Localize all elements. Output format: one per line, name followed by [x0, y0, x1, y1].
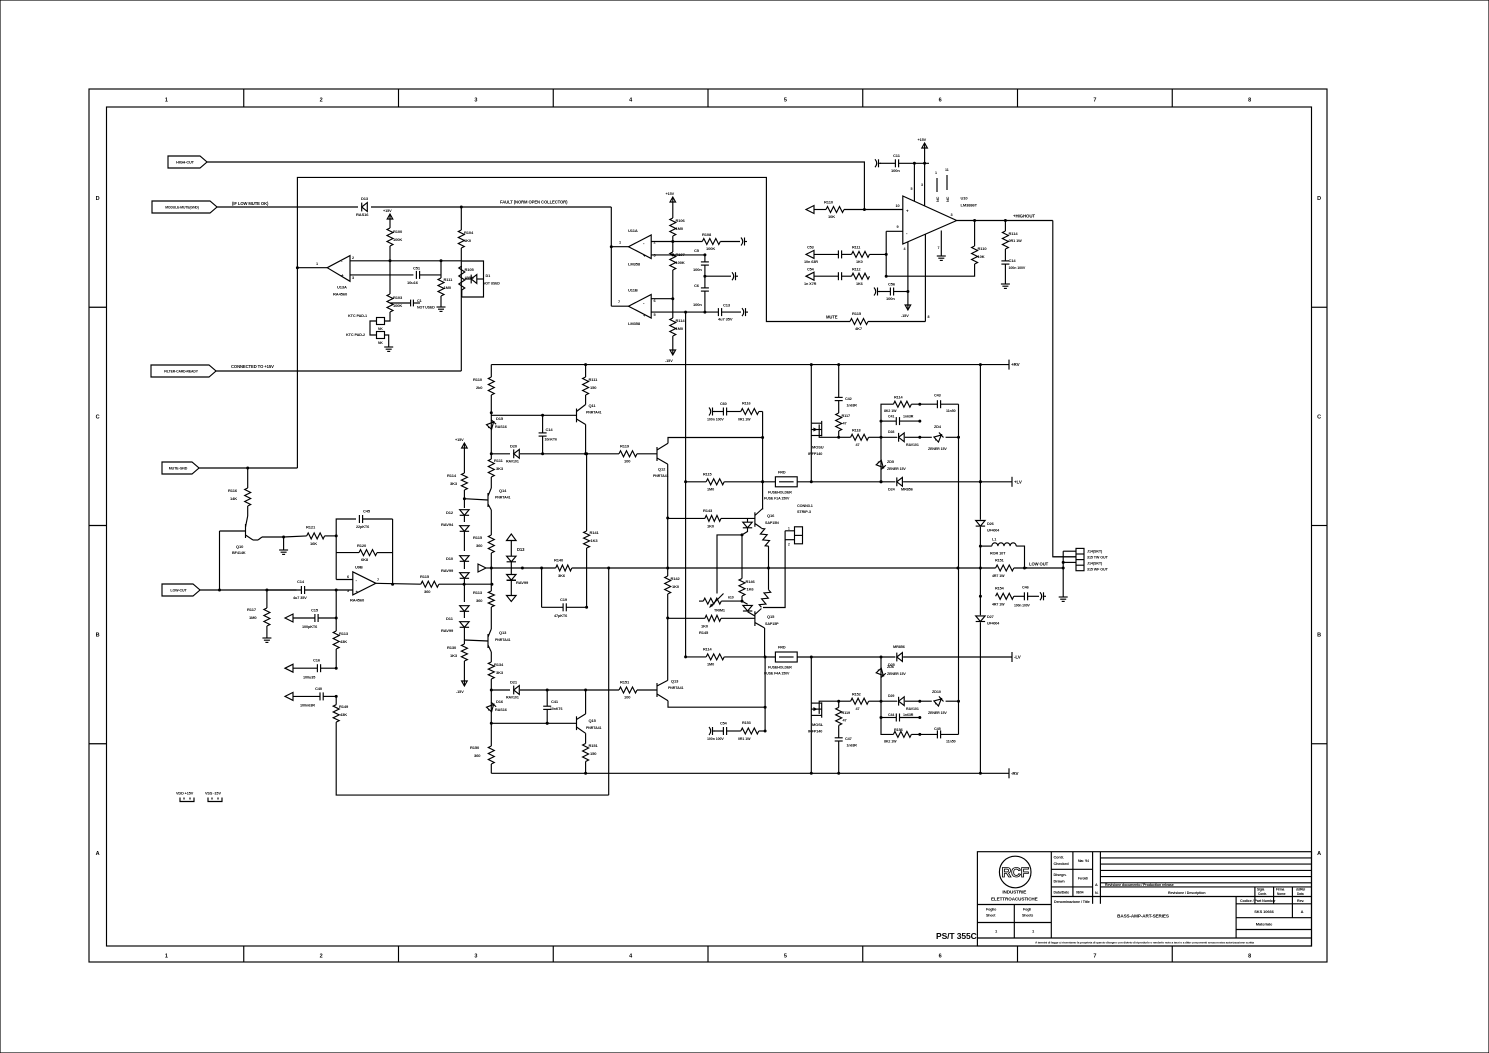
power -15V U10 — [907, 292, 909, 304]
svg-text:100n: 100n — [693, 267, 702, 272]
svg-text:D27: D27 — [987, 615, 994, 619]
resistor R142 1K0 — [665, 576, 671, 594]
svg-text:FUSEHOLDER: FUSEHOLDER — [768, 666, 792, 670]
diode D23 — [742, 601, 748, 604]
svg-text:100n 100V: 100n 100V — [707, 418, 724, 422]
power +15V U13A — [389, 214, 391, 221]
svg-text:ZENER 15V: ZENER 15V — [928, 711, 947, 715]
svg-text:1M0: 1M0 — [444, 285, 452, 290]
svg-text:R106: R106 — [676, 218, 686, 223]
svg-text:R130: R130 — [447, 645, 457, 650]
svg-text:Rev.: Rev. — [1297, 899, 1305, 903]
zobel C60 R116 — [709, 408, 711, 416]
resistor R151o 4R7 — [996, 565, 1014, 571]
svg-text:C54: C54 — [807, 268, 815, 272]
svg-text:100n 100V: 100n 100V — [1009, 266, 1026, 270]
svg-text:4: 4 — [629, 98, 633, 104]
svg-text:C54: C54 — [720, 722, 728, 726]
wire Q11 base left — [491, 414, 576, 416]
diode D27 UF4004 — [976, 616, 985, 622]
svg-text:10: 10 — [896, 204, 900, 208]
svg-text:11n50: 11n50 — [946, 409, 956, 413]
svg-text:C14: C14 — [297, 579, 305, 584]
svg-text:L1: L1 — [992, 538, 996, 542]
svg-text:R149: R149 — [339, 704, 349, 709]
svg-text:R110: R110 — [473, 377, 483, 382]
diode D15 RAS16 — [490, 413, 492, 454]
svg-text:R111: R111 — [494, 458, 504, 463]
wire output vertical top — [979, 365, 981, 520]
svg-text:100: 100 — [624, 695, 631, 700]
wire summing vertical — [335, 590, 337, 631]
capacitor C53 10n — [837, 250, 839, 258]
op-amp U10 LM3886 — [903, 196, 957, 244]
svg-text:RAS16: RAS16 — [356, 212, 369, 217]
svg-text:Drawn: Drawn — [1054, 879, 1066, 883]
svg-text:UF4004: UF4004 — [987, 529, 999, 533]
svg-text:ELETTROACUSTICHE: ELETTROACUSTICHE — [991, 897, 1038, 902]
svg-text:TRIM1: TRIM1 — [714, 609, 725, 613]
wire U10 pin4 to C56 — [907, 242, 909, 292]
op-amp U11A — [629, 235, 652, 259]
svg-text:7: 7 — [1093, 954, 1096, 960]
svg-text:U11A: U11A — [628, 228, 638, 233]
capacitor C16 100u — [285, 664, 293, 672]
wire Q15L base line — [491, 722, 576, 724]
svg-text:R110: R110 — [824, 200, 834, 205]
wire U10 minus — [886, 230, 903, 232]
svg-text:1K0: 1K0 — [707, 524, 715, 529]
svg-text:2k0: 2k0 — [476, 385, 483, 390]
svg-text:(IF LOW MUTE OK): (IF LOW MUTE OK) — [232, 201, 269, 206]
svg-text:R151: R151 — [995, 559, 1004, 563]
svg-text:A: A — [1317, 851, 1321, 857]
svg-text:Disegn.: Disegn. — [1054, 873, 1067, 877]
resistor R108 100K — [702, 239, 720, 245]
wire HIGH-CUT to U10 input — [207, 162, 864, 210]
resistor R130 1K3 — [461, 644, 467, 661]
diode D28 RAV101 — [881, 436, 897, 438]
capacitor C47 gate — [838, 741, 840, 773]
svg-text:D10: D10 — [446, 556, 454, 561]
svg-text:RAV94: RAV94 — [441, 522, 454, 527]
svg-text:PNRTA41: PNRTA41 — [668, 686, 684, 690]
svg-text:2: 2 — [320, 954, 323, 960]
svg-text:1K3: 1K3 — [591, 538, 599, 543]
svg-text:1K3: 1K3 — [450, 653, 458, 658]
border outer frame — [89, 89, 1327, 962]
svg-text:SAP15N: SAP15N — [765, 521, 779, 525]
svg-text:100n: 100n — [891, 168, 900, 173]
transistor Q14 — [487, 493, 489, 507]
svg-text:3K3: 3K3 — [496, 670, 504, 675]
svg-text:VSS -15V: VSS -15V — [205, 792, 221, 796]
svg-text:3: 3 — [352, 276, 354, 280]
mosfet MOSL IRFP140 — [811, 714, 821, 716]
svg-text:D25: D25 — [888, 663, 895, 667]
svg-text:8: 8 — [928, 315, 930, 319]
branch R156 8K2 — [881, 701, 893, 734]
svg-text:R115: R115 — [420, 574, 430, 579]
svg-text:R114: R114 — [703, 648, 712, 652]
wire U10 pin3 — [924, 163, 926, 205]
wire gate fb vertical low — [958, 568, 960, 701]
wire Q12 collector — [668, 438, 763, 444]
svg-text:6: 6 — [654, 299, 656, 303]
svg-text:R115: R115 — [852, 311, 862, 316]
svg-text:1M0: 1M0 — [707, 663, 714, 667]
terminal -LV — [1011, 652, 1013, 662]
svg-text:Q14: Q14 — [499, 488, 507, 493]
svg-text:R115: R115 — [703, 473, 711, 477]
svg-text:3K3: 3K3 — [450, 481, 458, 486]
svg-text:C51: C51 — [413, 266, 421, 271]
diode D21 RAV101 — [520, 689, 619, 691]
resistor R147 emitter — [759, 527, 772, 547]
svg-text:A: A — [96, 851, 100, 857]
svg-text:C44: C44 — [888, 713, 894, 717]
svg-text:FUSE F1A 150V: FUSE F1A 150V — [764, 497, 790, 501]
wire fb to minus — [335, 553, 337, 580]
svg-text:-: - — [356, 578, 358, 583]
svg-text:08/94: 08/94 — [1076, 891, 1084, 895]
svg-text:ZENER 15V: ZENER 15V — [887, 672, 906, 676]
svg-text:10K: 10K — [978, 254, 985, 259]
svg-text:MOSL: MOSL — [812, 722, 824, 727]
svg-text:1n X7R: 1n X7R — [804, 282, 817, 286]
terminal +RV — [1008, 360, 1010, 370]
svg-text:7: 7 — [377, 578, 379, 582]
node MUTE-GND flag — [162, 462, 199, 474]
svg-text:0R1 1W: 0R1 1W — [1009, 239, 1023, 243]
svg-text:Feroldi: Feroldi — [1078, 877, 1088, 881]
connector glyph C13 — [742, 308, 744, 316]
resistor R117g 47 — [836, 413, 842, 431]
svg-text:R150: R150 — [470, 745, 480, 750]
wire Q10 base — [219, 531, 221, 590]
svg-text:A termini di legge ci riservia: A termini di legge ci riserviamo la prop… — [1035, 940, 1254, 944]
wire main bias line — [492, 567, 556, 569]
svg-text:R113: R113 — [339, 631, 349, 636]
capacitor C14 4u7 — [300, 586, 302, 594]
svg-text:-15V: -15V — [456, 690, 464, 694]
wire Q10 to fb — [284, 536, 307, 537]
svg-text:NK: NK — [378, 341, 383, 345]
transistor Q11 — [576, 409, 578, 423]
svg-text:Fogli: Fogli — [1023, 908, 1031, 912]
svg-text:CONN3.1: CONN3.1 — [797, 504, 813, 508]
resistor R149 43K — [335, 696, 337, 704]
wires J14 pins — [1063, 550, 1076, 552]
svg-text:10K: 10K — [828, 214, 835, 219]
svg-text:RAV99: RAV99 — [441, 628, 454, 633]
svg-text:R104: R104 — [464, 230, 474, 235]
svg-text:R145: R145 — [699, 630, 709, 635]
svg-text:R154: R154 — [995, 587, 1005, 591]
svg-text:RAS16: RAS16 — [495, 425, 507, 429]
svg-text:2: 2 — [320, 98, 323, 104]
wire routing box — [297, 177, 824, 468]
svg-text:MOSU: MOSU — [812, 445, 824, 450]
svg-text:R111: R111 — [589, 377, 599, 382]
svg-text:R151: R151 — [620, 680, 630, 685]
op-amp U9B RA4560 — [353, 572, 376, 595]
svg-text:1: 1 — [935, 171, 937, 175]
svg-text:C5: C5 — [694, 248, 700, 253]
svg-text:FILTER-CARD-READY: FILTER-CARD-READY — [164, 370, 199, 374]
capacitor C14d 10n — [542, 415, 544, 433]
svg-text:D21: D21 — [510, 680, 518, 685]
wire U10 output — [957, 220, 1053, 222]
svg-text:Q10: Q10 — [236, 544, 244, 549]
svg-text:D26: D26 — [987, 522, 994, 526]
svg-text:100K: 100K — [706, 246, 715, 251]
capacitor C44g 1n — [880, 716, 883, 719]
svg-text:PNRTA41: PNRTA41 — [586, 726, 602, 730]
svg-text:NK: NK — [378, 327, 383, 331]
capacitor C40 100n — [285, 692, 293, 700]
svg-text:100n: 100n — [886, 296, 895, 301]
svg-text:+RV: +RV — [1011, 362, 1020, 367]
svg-text:NOT USED: NOT USED — [417, 306, 435, 310]
wire fb vertical — [392, 519, 394, 584]
wire -RV rail — [491, 772, 1009, 774]
capacitor C42 gate — [838, 365, 840, 398]
wire FILTER-CARD-READY — [215, 370, 461, 372]
svg-text:B: B — [96, 633, 100, 639]
capacitor C14h 100n 100V — [1004, 249, 1006, 261]
capacitor C6 100n — [704, 276, 706, 288]
resistor R106 1M0 — [672, 204, 674, 218]
svg-text:10nKT6: 10nKT6 — [550, 707, 562, 711]
svg-text:1K0: 1K0 — [672, 584, 680, 589]
svg-text:2: 2 — [352, 256, 354, 260]
svg-text:R134: R134 — [494, 662, 504, 667]
svg-text:4R7 1W: 4R7 1W — [992, 603, 1005, 607]
resistor R118 47 — [851, 434, 869, 440]
capacitor C45 11n — [936, 730, 938, 738]
svg-text:Q16: Q16 — [767, 513, 775, 518]
svg-text:D16: D16 — [496, 699, 504, 704]
svg-text:R111: R111 — [852, 246, 860, 250]
wire U11B plus — [651, 311, 718, 313]
resistor R145 1K0 — [668, 617, 705, 619]
svg-text:D13: D13 — [517, 547, 525, 552]
resistor R114 1M0 — [672, 299, 674, 318]
svg-text:Q13: Q13 — [499, 630, 507, 635]
svg-text:C13: C13 — [723, 303, 731, 308]
svg-text:-: - — [643, 241, 645, 246]
wire MOSL gate — [837, 700, 840, 703]
terminal +LV — [1011, 477, 1013, 487]
resistor R111t 150 — [585, 365, 587, 377]
svg-text:SAP15P: SAP15P — [765, 622, 779, 626]
svg-text:100n: 100n — [693, 302, 702, 307]
svg-text:1: 1 — [165, 954, 168, 960]
svg-text:R140: R140 — [554, 558, 564, 563]
svg-text:R108: R108 — [702, 232, 712, 237]
svg-text:RAV99: RAV99 — [441, 568, 454, 573]
svg-text:U9B: U9B — [355, 565, 363, 570]
feedback loop R120 6K8 — [335, 536, 337, 553]
svg-text:-: - — [906, 231, 908, 236]
svg-text:+15V: +15V — [383, 209, 392, 213]
svg-text:J14(SKT): J14(SKT) — [1087, 561, 1103, 565]
svg-text:100u35: 100u35 — [303, 676, 315, 680]
svg-text:47: 47 — [843, 719, 847, 723]
svg-text:D12: D12 — [446, 510, 454, 515]
capacitor C41d 10n — [546, 690, 548, 706]
svg-text:0R1 1W: 0R1 1W — [738, 737, 751, 741]
svg-text:1K6: 1K6 — [856, 282, 863, 286]
resistor R107 100K — [672, 242, 674, 253]
branch R114g 8K2 — [881, 404, 893, 437]
svg-text:3: 3 — [474, 98, 477, 104]
svg-text:FUSE F4A 150V: FUSE F4A 150V — [764, 672, 790, 676]
wire MODULE-MUTE to D13 — [217, 206, 358, 208]
svg-text:R151: R151 — [589, 743, 599, 748]
capacitor C15 100p — [285, 614, 293, 622]
svg-text:360: 360 — [424, 589, 431, 594]
resistor R114 3K3 — [463, 450, 465, 473]
svg-text:VDD +15V: VDD +15V — [176, 792, 194, 796]
zener ZD5 — [880, 437, 882, 482]
svg-text:C: C — [1317, 414, 1321, 420]
svg-text:14K: 14K — [230, 496, 237, 501]
svg-text:Nome: Nome — [1277, 892, 1286, 896]
resistor R151b 150 — [585, 734, 587, 744]
svg-text:4u7 35V: 4u7 35V — [293, 596, 307, 600]
wire Q10 collector — [253, 539, 258, 541]
wire U10 mute pin8 — [924, 234, 926, 322]
resistor R111 1M0 — [440, 261, 442, 278]
capacitor C54 1n — [837, 272, 839, 280]
transistor Q12L — [656, 683, 658, 697]
svg-text:C14: C14 — [546, 427, 554, 432]
svg-text:7: 7 — [938, 246, 940, 250]
svg-text:R153: R153 — [742, 721, 751, 725]
svg-text:Data: Data — [1297, 892, 1304, 896]
zobel C54 R153 — [709, 727, 711, 735]
svg-text:D: D — [96, 196, 100, 202]
grid tick marks — [243, 89, 245, 107]
svg-text:R105: R105 — [465, 267, 475, 272]
power +15V U10 — [924, 150, 926, 163]
svg-text:STRIP-3: STRIP-3 — [797, 510, 811, 514]
svg-text:3: 3 — [474, 954, 477, 960]
svg-text:C45: C45 — [934, 727, 941, 731]
svg-text:10nKT6: 10nKT6 — [545, 438, 557, 442]
svg-text:R114: R114 — [1009, 231, 1019, 236]
svg-text:47: 47 — [843, 422, 847, 426]
svg-text:RAV101: RAV101 — [506, 460, 519, 464]
wire bias to output net — [769, 567, 996, 569]
node HIGH-CUT flag — [168, 156, 207, 168]
svg-text:43K: 43K — [340, 712, 347, 717]
connector glyph R108 — [741, 238, 743, 246]
svg-text:1n63R: 1n63R — [903, 713, 914, 717]
svg-text:C43: C43 — [934, 394, 941, 398]
svg-text:5: 5 — [784, 954, 787, 960]
wire MOSU gate — [837, 436, 840, 439]
svg-text:R111: R111 — [444, 277, 454, 282]
svg-text:ROR 10T: ROR 10T — [990, 552, 1006, 556]
svg-text:N.: N. — [1095, 891, 1098, 895]
svg-text:R118: R118 — [852, 429, 860, 433]
wire fuse to -LV — [797, 656, 895, 658]
svg-text:2: 2 — [788, 543, 790, 547]
resistor R111v 3K3 — [490, 454, 492, 459]
svg-text:Codice / Part Number: Codice / Part Number — [1240, 899, 1276, 903]
svg-text:U11B: U11B — [628, 288, 638, 293]
svg-text:1: 1 — [1032, 929, 1035, 934]
transistor Q13 — [487, 634, 489, 648]
svg-text:LM3886T: LM3886T — [961, 203, 978, 208]
svg-text:PNRTA41: PNRTA41 — [495, 638, 511, 642]
resistor R114h 0R1 1W — [1004, 221, 1006, 232]
svg-text:U10: U10 — [961, 196, 969, 201]
svg-text:MUTE: MUTE — [826, 315, 838, 320]
resistor R113v 360 — [488, 591, 494, 607]
svg-text:0R1 1W: 0R1 1W — [738, 418, 751, 422]
zener ZD6 — [880, 657, 882, 701]
svg-text:4: 4 — [904, 247, 906, 251]
transistor Q15 — [754, 611, 756, 626]
wire U11A plus — [651, 254, 705, 256]
wire U13A minus input — [350, 260, 462, 262]
resistor R140 3K6 — [556, 565, 572, 571]
svg-text:100n 100V: 100n 100V — [1014, 604, 1031, 608]
svg-text:5: 5 — [911, 187, 913, 191]
resistor R104 1K0 — [460, 207, 462, 230]
diode chain D13 — [507, 534, 517, 541]
svg-text:R117: R117 — [842, 414, 850, 418]
svg-text:100K: 100K — [676, 260, 685, 265]
svg-text:16K: 16K — [310, 541, 317, 546]
svg-text:KTC PAD-2: KTC PAD-2 — [346, 333, 365, 337]
wire Q12 emitter chain — [667, 464, 669, 576]
diodes D12 RAV94 — [460, 510, 469, 516]
svg-text:1M0: 1M0 — [676, 326, 684, 331]
svg-text:PNRTA41: PNRTA41 — [653, 474, 669, 478]
svg-text:C47: C47 — [845, 737, 852, 741]
svg-text:FRD: FRD — [778, 471, 786, 475]
svg-text:47: 47 — [856, 443, 860, 447]
svg-text:LM358: LM358 — [628, 321, 641, 326]
svg-text:7: 7 — [1093, 98, 1096, 104]
resistor R110 10K fb — [974, 221, 976, 247]
svg-text:1M0: 1M0 — [676, 226, 684, 231]
svg-text:FRD: FRD — [778, 646, 786, 650]
svg-text:5: 5 — [654, 313, 656, 317]
capacitor C1 NOT USED — [410, 300, 412, 307]
svg-text:D: D — [1317, 196, 1321, 202]
resistor R151L 100 — [637, 689, 657, 691]
resistor R115 4K7 mute — [824, 321, 850, 323]
svg-text:Data/Date: Data/Date — [1054, 891, 1070, 895]
connector CONN3.1 STRIP-3 — [795, 527, 803, 544]
wire +RV rail — [491, 364, 1009, 366]
mosfet MOSU IRFP140 — [811, 422, 821, 424]
resistor R100 100K — [389, 221, 391, 228]
svg-text:FAULT (NORM OPEN COLLECTOR): FAULT (NORM OPEN COLLECTOR) — [500, 200, 568, 205]
ground R117 — [266, 634, 268, 638]
svg-text:ZD5: ZD5 — [887, 460, 894, 464]
wire U11B minus — [651, 298, 673, 300]
svg-text:6: 6 — [939, 98, 942, 104]
svg-text:Checked: Checked — [1054, 862, 1070, 866]
pins NC U10 — [936, 178, 938, 192]
